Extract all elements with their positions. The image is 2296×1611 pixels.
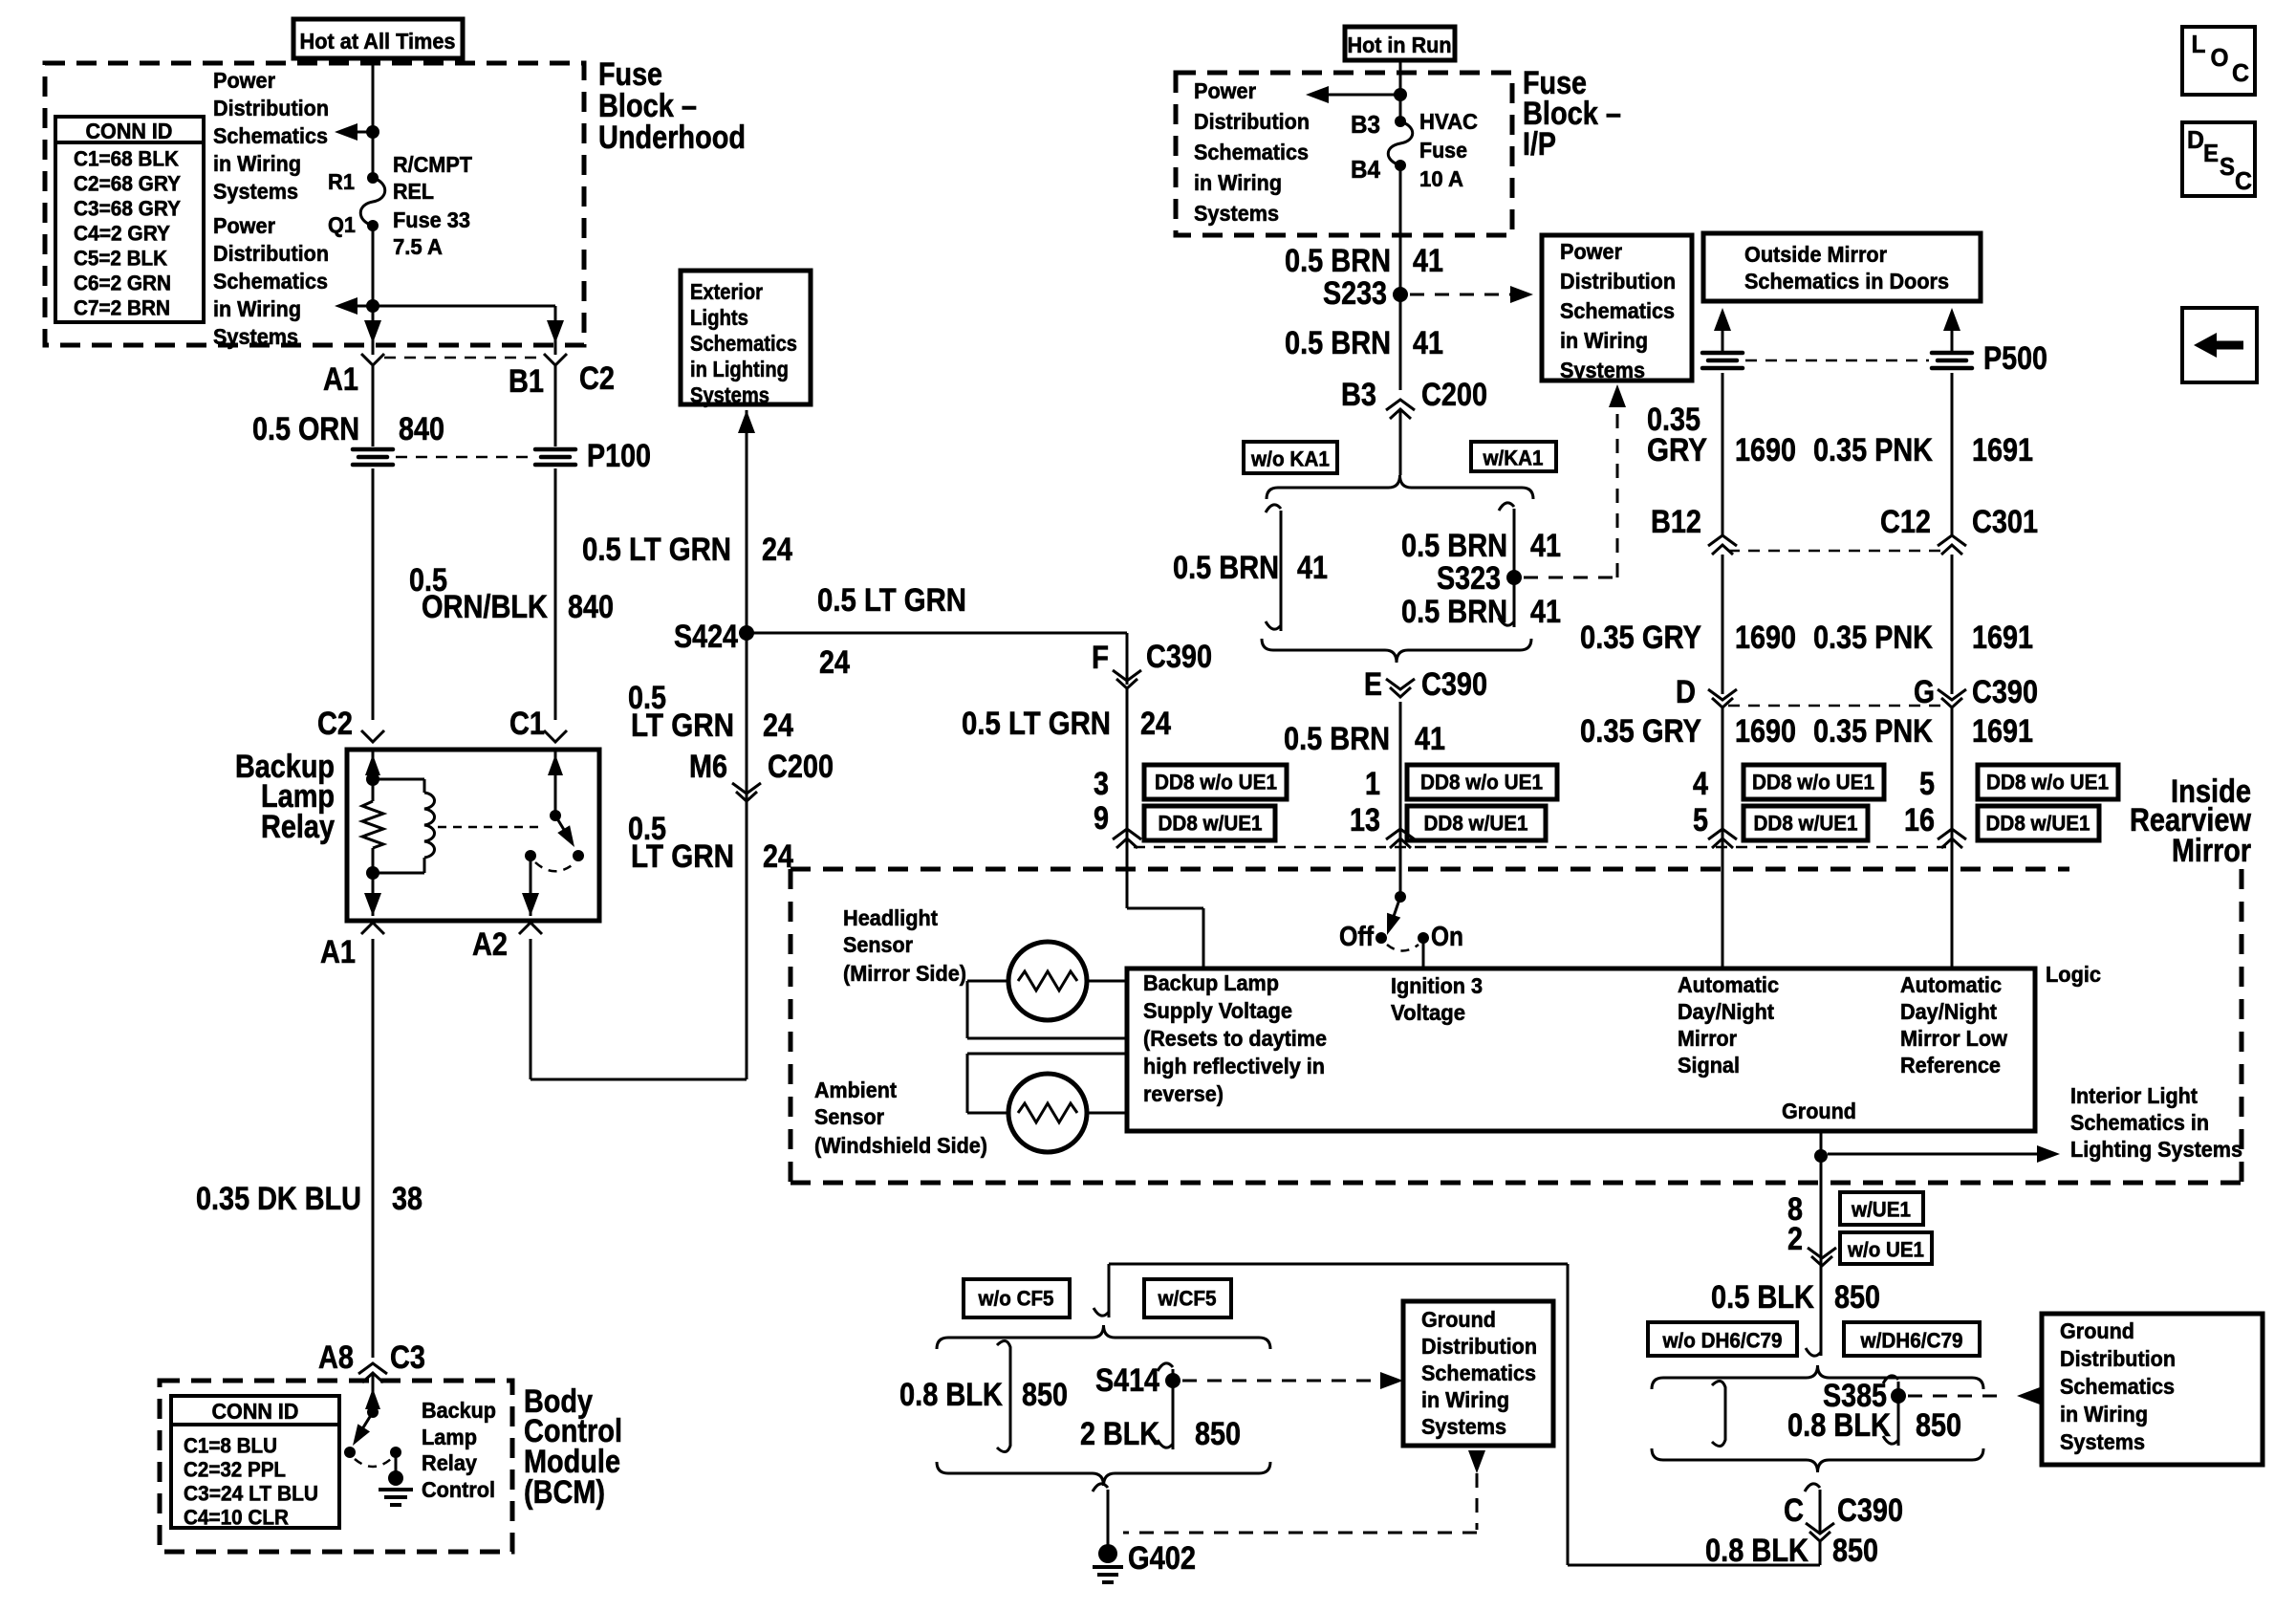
svg-text:A2: A2 <box>472 926 508 963</box>
svg-text:S424: S424 <box>674 619 738 655</box>
svg-text:0.5 BLK: 0.5 BLK <box>1711 1279 1814 1316</box>
svg-text:0.35 PNK: 0.35 PNK <box>1813 620 1933 656</box>
svg-text:C3: C3 <box>390 1339 425 1376</box>
svg-text:Systems: Systems <box>1560 358 1645 382</box>
svg-text:Schematics in Doors: Schematics in Doors <box>1744 269 1949 294</box>
svg-text:4: 4 <box>1693 766 1708 802</box>
svg-text:Mirror: Mirror <box>1678 1026 1737 1051</box>
svg-text:C200: C200 <box>1421 377 1487 413</box>
svg-text:A1: A1 <box>323 361 358 398</box>
svg-text:Distribution: Distribution <box>2060 1346 2176 1371</box>
svg-text:Control: Control <box>422 1477 495 1502</box>
svg-text:0.35 GRY: 0.35 GRY <box>1580 620 1701 656</box>
svg-text:0.35 PNK: 0.35 PNK <box>1813 713 1933 750</box>
svg-text:R1: R1 <box>328 169 355 194</box>
svg-text:C390: C390 <box>1837 1492 1903 1529</box>
svg-text:Fuse: Fuse <box>1419 138 1467 163</box>
svg-text:w/UE1: w/UE1 <box>1851 1198 1911 1222</box>
svg-text:C4=2 GRY: C4=2 GRY <box>74 222 170 246</box>
svg-text:reverse): reverse) <box>1143 1081 1224 1106</box>
svg-text:Distribution: Distribution <box>1421 1334 1537 1359</box>
svg-text:0.5 BRN: 0.5 BRN <box>1285 243 1391 279</box>
svg-text:w/o CF5: w/o CF5 <box>978 1287 1054 1311</box>
svg-text:Automatic: Automatic <box>1900 972 2002 997</box>
svg-text:Ignition 3: Ignition 3 <box>1391 973 1483 998</box>
svg-text:Mirror: Mirror <box>2172 833 2251 869</box>
svg-text:24: 24 <box>819 644 850 681</box>
svg-text:A1: A1 <box>320 934 356 970</box>
svg-text:S323: S323 <box>1437 560 1501 597</box>
svg-text:1690: 1690 <box>1735 713 1796 750</box>
svg-text:Systems: Systems <box>1421 1414 1506 1439</box>
svg-text:Distribution: Distribution <box>1560 269 1676 294</box>
svg-text:Supply Voltage: Supply Voltage <box>1143 998 1292 1023</box>
svg-text:C5=2 BLK: C5=2 BLK <box>74 247 167 271</box>
svg-text:Relay: Relay <box>422 1450 477 1475</box>
svg-text:1: 1 <box>1365 766 1380 802</box>
svg-text:in Lighting: in Lighting <box>690 357 789 381</box>
svg-text:D: D <box>2187 125 2204 154</box>
svg-text:DD8 w/UE1: DD8 w/UE1 <box>1986 812 2090 836</box>
svg-text:0.5 BRN: 0.5 BRN <box>1401 594 1507 630</box>
svg-text:Hot at All Times: Hot at All Times <box>300 29 456 54</box>
svg-text:0.5 BRN: 0.5 BRN <box>1285 325 1391 361</box>
svg-text:16: 16 <box>1904 802 1935 838</box>
svg-text:in Wiring: in Wiring <box>213 151 301 176</box>
svg-text:DD8 w/o UE1: DD8 w/o UE1 <box>1986 771 2109 795</box>
svg-text:Ground: Ground <box>1782 1099 1856 1123</box>
svg-text:w/CF5: w/CF5 <box>1158 1287 1217 1311</box>
svg-text:B12: B12 <box>1651 504 1701 540</box>
svg-text:O: O <box>2211 43 2229 72</box>
svg-text:Backup: Backup <box>422 1398 496 1423</box>
svg-text:Logic: Logic <box>2046 962 2101 987</box>
svg-text:(BCM): (BCM) <box>524 1474 605 1511</box>
svg-text:L: L <box>2192 30 2206 58</box>
svg-text:in Wiring: in Wiring <box>1560 328 1648 353</box>
svg-text:C1: C1 <box>509 706 545 742</box>
svg-text:Systems: Systems <box>213 324 298 349</box>
svg-text:C4=10 CLR: C4=10 CLR <box>184 1506 289 1530</box>
svg-text:S414: S414 <box>1095 1362 1159 1399</box>
svg-text:w/o DH6/C79: w/o DH6/C79 <box>1662 1329 1783 1353</box>
svg-text:0.5 LT GRN: 0.5 LT GRN <box>582 532 731 568</box>
svg-text:Hot in Run: Hot in Run <box>1348 33 1452 57</box>
svg-text:C390: C390 <box>1146 639 1212 675</box>
svg-text:(Windshield Side): (Windshield Side) <box>814 1133 987 1158</box>
svg-text:high reflectively in: high reflectively in <box>1143 1054 1325 1078</box>
svg-text:0.5 BRN: 0.5 BRN <box>1401 528 1507 564</box>
svg-text:CONN ID: CONN ID <box>212 1399 299 1424</box>
svg-text:C12: C12 <box>1880 504 1931 540</box>
svg-text:Fuse 33: Fuse 33 <box>393 207 470 232</box>
svg-text:C6=2 GRN: C6=2 GRN <box>74 272 171 295</box>
svg-text:850: 850 <box>1832 1533 1878 1569</box>
svg-text:P500: P500 <box>1983 340 2047 377</box>
svg-text:I/P: I/P <box>1523 126 1556 163</box>
svg-text:0.35 GRY: 0.35 GRY <box>1580 713 1701 750</box>
svg-text:3: 3 <box>1094 766 1109 802</box>
svg-text:Schematics: Schematics <box>1194 140 1309 164</box>
svg-text:DD8 w/UE1: DD8 w/UE1 <box>1424 812 1528 836</box>
svg-text:Automatic: Automatic <box>1678 972 1779 997</box>
svg-text:41: 41 <box>1530 528 1561 564</box>
svg-text:Reference: Reference <box>1900 1053 2001 1078</box>
svg-text:0.5 LT GRN: 0.5 LT GRN <box>817 582 966 619</box>
svg-text:Systems: Systems <box>213 179 298 204</box>
svg-text:C2: C2 <box>317 706 353 742</box>
svg-text:DD8 w/UE1: DD8 w/UE1 <box>1754 812 1858 836</box>
svg-text:24: 24 <box>762 532 792 568</box>
svg-text:E: E <box>1364 666 1382 703</box>
svg-text:C2: C2 <box>579 360 615 397</box>
svg-text:0.5 BRN: 0.5 BRN <box>1284 721 1390 757</box>
svg-text:Ground: Ground <box>2060 1318 2134 1343</box>
svg-text:41: 41 <box>1297 550 1328 586</box>
svg-text:HVAC: HVAC <box>1419 109 1478 134</box>
svg-text:GRY: GRY <box>1647 432 1707 468</box>
svg-text:C1=8 BLU: C1=8 BLU <box>184 1434 277 1458</box>
svg-text:LT GRN: LT GRN <box>631 838 734 875</box>
svg-text:24: 24 <box>1140 706 1171 742</box>
svg-text:0.8 BLK: 0.8 BLK <box>1787 1407 1891 1444</box>
svg-text:C: C <box>1784 1492 1804 1529</box>
svg-text:0.5 LT GRN: 0.5 LT GRN <box>962 706 1111 742</box>
svg-text:Power: Power <box>1560 239 1622 264</box>
svg-text:Power: Power <box>1194 78 1256 103</box>
svg-text:C2=68 GRY: C2=68 GRY <box>74 172 181 196</box>
svg-text:w/o UE1: w/o UE1 <box>1847 1238 1924 1262</box>
svg-text:13: 13 <box>1350 802 1380 838</box>
svg-text:10 A: 10 A <box>1419 166 1463 191</box>
svg-text:C1=68 BLK: C1=68 BLK <box>74 147 179 171</box>
svg-text:2: 2 <box>1787 1221 1803 1257</box>
svg-text:Outside Mirror: Outside Mirror <box>1744 242 1887 267</box>
svg-text:5: 5 <box>1919 766 1935 802</box>
svg-text:F: F <box>1092 640 1109 676</box>
svg-text:C3=68 GRY: C3=68 GRY <box>74 197 181 221</box>
svg-text:B3: B3 <box>1351 110 1380 139</box>
svg-text:Systems: Systems <box>1194 201 1279 226</box>
svg-text:S: S <box>2220 152 2235 181</box>
svg-text:S233: S233 <box>1323 275 1387 312</box>
svg-text:w/KA1: w/KA1 <box>1483 446 1544 470</box>
svg-text:G402: G402 <box>1128 1540 1196 1577</box>
svg-text:1690: 1690 <box>1735 432 1796 468</box>
svg-text:38: 38 <box>392 1181 422 1217</box>
svg-text:C3=24 LT BLU: C3=24 LT BLU <box>184 1482 318 1506</box>
svg-text:5: 5 <box>1693 802 1708 838</box>
svg-text:A8: A8 <box>318 1339 354 1376</box>
svg-text:Mirror Low: Mirror Low <box>1900 1026 2007 1051</box>
svg-text:0.8 BLK: 0.8 BLK <box>1705 1533 1809 1569</box>
svg-text:Schematics: Schematics <box>1560 298 1675 323</box>
svg-text:C2=32 PPL: C2=32 PPL <box>184 1458 286 1482</box>
svg-text:in Wiring: in Wiring <box>1194 170 1282 195</box>
svg-text:840: 840 <box>399 411 444 447</box>
svg-text:Sensor: Sensor <box>814 1104 884 1129</box>
svg-text:Power: Power <box>213 68 275 93</box>
svg-text:Schematics: Schematics <box>213 269 328 294</box>
svg-text:in Wiring: in Wiring <box>2060 1402 2148 1426</box>
svg-text:Systems: Systems <box>2060 1429 2145 1454</box>
svg-text:Distribution: Distribution <box>1194 109 1310 134</box>
svg-text:24: 24 <box>763 708 793 744</box>
svg-text:7.5 A: 7.5 A <box>393 234 443 259</box>
svg-text:1691: 1691 <box>1972 432 2033 468</box>
svg-text:B4: B4 <box>1351 155 1380 184</box>
svg-text:C390: C390 <box>1421 666 1487 703</box>
svg-text:Schematics: Schematics <box>1421 1361 1536 1385</box>
svg-text:Ambient: Ambient <box>814 1078 897 1102</box>
svg-text:M6: M6 <box>689 749 727 785</box>
svg-text:850: 850 <box>1834 1279 1880 1316</box>
svg-text:(Mirror Side): (Mirror Side) <box>843 961 966 986</box>
svg-text:Schematics: Schematics <box>2060 1374 2175 1399</box>
svg-text:P100: P100 <box>587 438 651 474</box>
svg-text:0.8 BLK: 0.8 BLK <box>899 1377 1003 1413</box>
svg-text:41: 41 <box>1415 721 1445 757</box>
svg-text:Voltage: Voltage <box>1391 1000 1465 1025</box>
svg-text:840: 840 <box>568 589 614 625</box>
svg-text:Underhood: Underhood <box>598 120 746 156</box>
svg-text:1690: 1690 <box>1735 620 1796 656</box>
svg-text:41: 41 <box>1530 594 1561 630</box>
svg-text:E: E <box>2203 139 2219 167</box>
svg-text:B1: B1 <box>509 363 544 400</box>
svg-text:41: 41 <box>1413 325 1443 361</box>
svg-text:Distribution: Distribution <box>213 96 329 120</box>
svg-text:0.5 BRN: 0.5 BRN <box>1173 550 1279 586</box>
svg-text:1691: 1691 <box>1972 620 2033 656</box>
svg-text:C301: C301 <box>1972 504 2038 540</box>
svg-text:LT GRN: LT GRN <box>631 708 734 744</box>
svg-text:C: C <box>2235 166 2252 195</box>
svg-text:R/CMPT: R/CMPT <box>393 152 472 177</box>
svg-text:C7=2 BRN: C7=2 BRN <box>74 296 170 320</box>
svg-text:CONN ID: CONN ID <box>86 119 173 143</box>
svg-text:Schematics: Schematics <box>213 123 328 148</box>
svg-text:in Wiring: in Wiring <box>1421 1387 1509 1412</box>
svg-text:C390: C390 <box>1972 674 2038 710</box>
svg-text:Ground: Ground <box>1421 1307 1496 1332</box>
svg-text:Interior Light: Interior Light <box>2070 1083 2198 1108</box>
svg-text:(Resets to daytime: (Resets to daytime <box>1143 1026 1327 1051</box>
svg-text:9: 9 <box>1094 800 1109 837</box>
svg-text:Off: Off <box>1339 922 1374 952</box>
svg-text:w/DH6/C79: w/DH6/C79 <box>1860 1329 1963 1353</box>
svg-text:C200: C200 <box>768 749 834 785</box>
svg-text:0.5 ORN: 0.5 ORN <box>252 411 359 447</box>
svg-text:Systems: Systems <box>690 382 769 407</box>
svg-text:Backup Lamp: Backup Lamp <box>1143 970 1279 995</box>
svg-text:41: 41 <box>1413 243 1443 279</box>
svg-text:DD8 w/o UE1: DD8 w/o UE1 <box>1752 771 1874 795</box>
svg-text:Power: Power <box>213 213 275 238</box>
svg-text:1691: 1691 <box>1972 713 2033 750</box>
svg-text:C: C <box>2232 58 2249 87</box>
svg-text:in Wiring: in Wiring <box>213 296 301 321</box>
svg-text:Lamp: Lamp <box>422 1425 477 1449</box>
svg-text:850: 850 <box>1195 1416 1241 1452</box>
svg-text:Sensor: Sensor <box>843 932 913 957</box>
svg-text:Lighting Systems: Lighting Systems <box>2070 1137 2242 1162</box>
svg-text:Signal: Signal <box>1678 1053 1740 1078</box>
svg-text:B3: B3 <box>1341 377 1376 413</box>
svg-text:On: On <box>1431 922 1463 952</box>
svg-text:Day/Night: Day/Night <box>1900 999 1997 1024</box>
svg-text:Relay: Relay <box>261 809 335 845</box>
svg-text:Q1: Q1 <box>328 212 356 237</box>
svg-text:Lights: Lights <box>690 305 748 330</box>
svg-text:ORN/BLK: ORN/BLK <box>422 589 548 625</box>
svg-text:Headlight: Headlight <box>843 905 938 930</box>
svg-text:Exterior: Exterior <box>690 279 763 304</box>
svg-text:2 BLK: 2 BLK <box>1080 1416 1159 1452</box>
svg-text:0.35 DK BLU: 0.35 DK BLU <box>196 1181 361 1217</box>
svg-text:850: 850 <box>1022 1377 1068 1413</box>
svg-text:D: D <box>1676 674 1696 710</box>
svg-text:REL: REL <box>393 179 434 204</box>
svg-text:0.35 PNK: 0.35 PNK <box>1813 432 1933 468</box>
svg-text:850: 850 <box>1916 1407 1961 1444</box>
svg-text:DD8 w/UE1: DD8 w/UE1 <box>1159 812 1263 836</box>
svg-text:Schematics in: Schematics in <box>2070 1110 2209 1135</box>
svg-text:Distribution: Distribution <box>213 241 329 266</box>
svg-text:w/o KA1: w/o KA1 <box>1250 447 1330 471</box>
svg-text:DD8 w/o UE1: DD8 w/o UE1 <box>1155 771 1277 795</box>
svg-text:Schematics: Schematics <box>690 331 797 356</box>
svg-text:DD8 w/o UE1: DD8 w/o UE1 <box>1420 771 1543 795</box>
svg-text:Day/Night: Day/Night <box>1678 999 1774 1024</box>
